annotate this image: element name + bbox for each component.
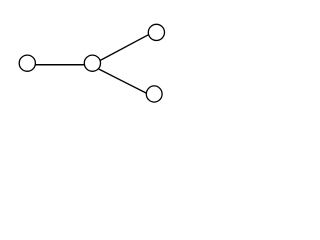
node B [84,55,100,71]
node D [146,86,162,102]
node C [148,24,164,40]
wire edge A-B [30,64,89,66]
wire edge B-C [97,32,153,62]
wire edge B-D [94,67,150,95]
node A [19,55,35,71]
